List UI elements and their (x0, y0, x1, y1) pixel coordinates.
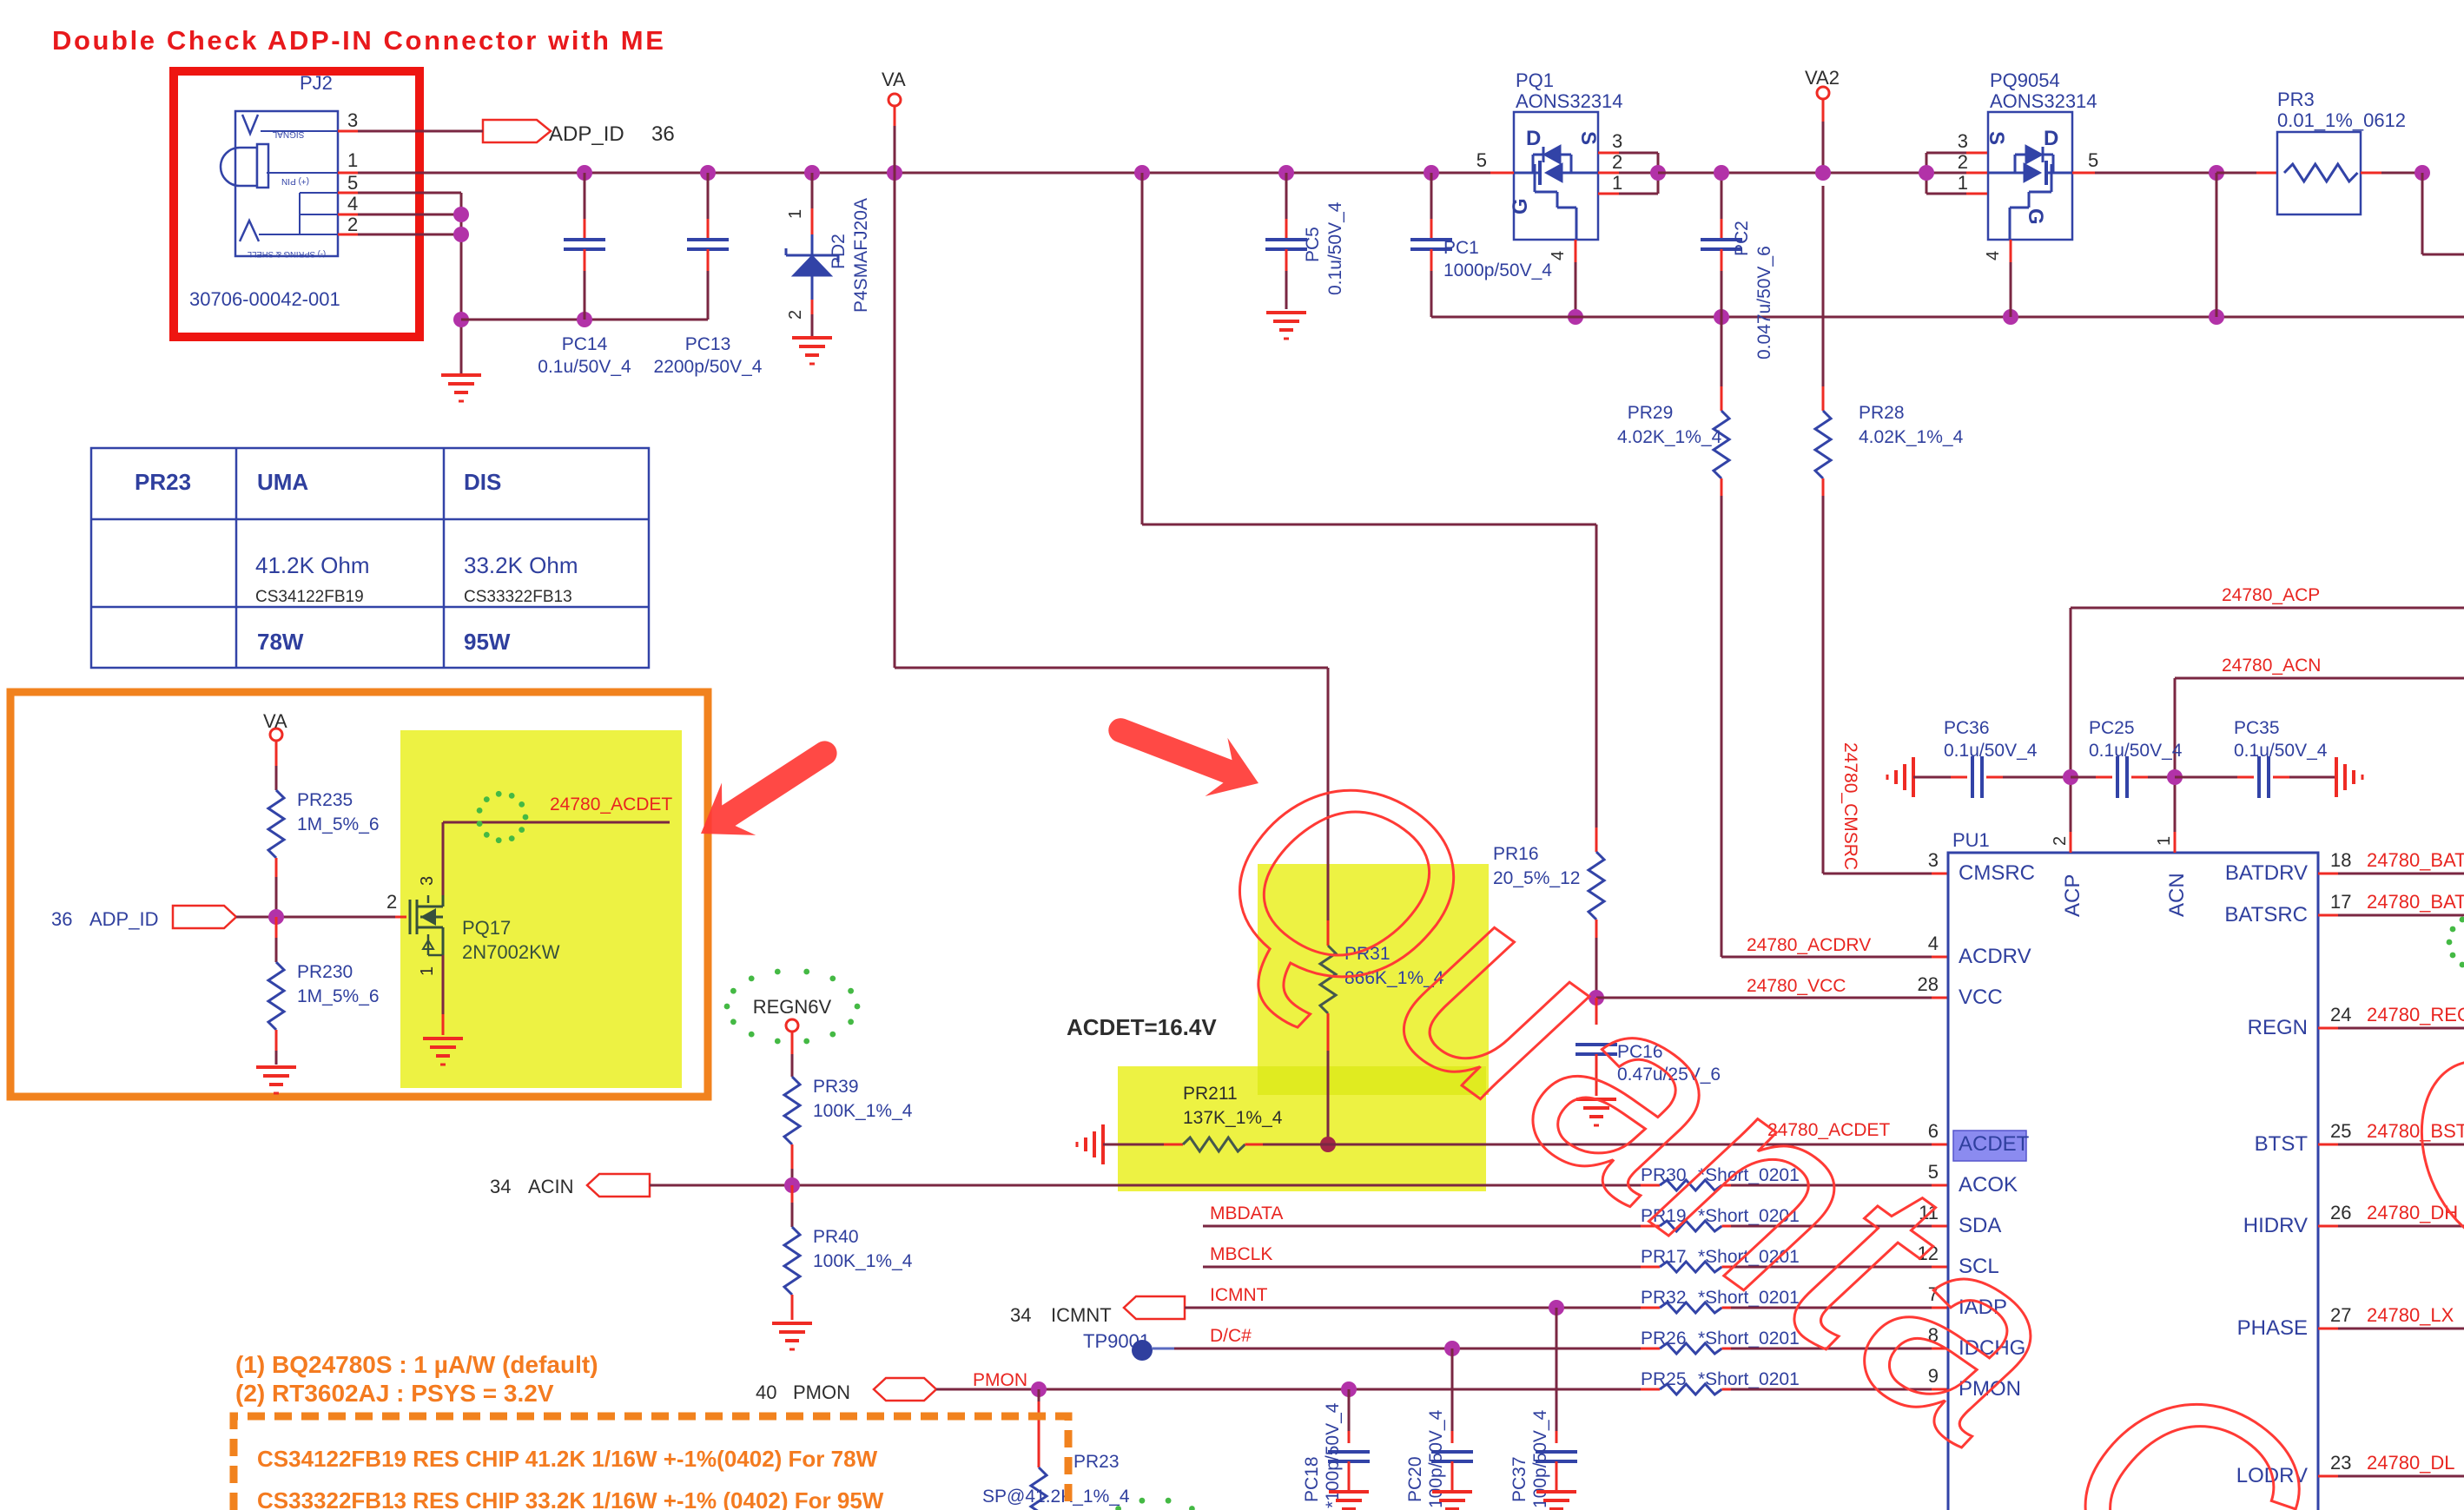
ground right of PC35 (2336, 757, 2362, 797)
svg-text:PD2: PD2 (829, 234, 849, 269)
pin number 1 of PQ1 (1612, 172, 1622, 194)
resistor PR235 (268, 741, 284, 917)
wire BATSRC out (2318, 914, 2464, 917)
pin ACP of PU1 (2051, 832, 2084, 917)
svg-text:CS34122FB19: CS34122FB19 (255, 588, 364, 606)
svg-text:PR23: PR23 (1073, 1452, 1120, 1472)
pin number 9 of PU1 PMON (1928, 1365, 1939, 1387)
wire branch-B (1142, 173, 1596, 828)
label PC20 value 100p/50V_4 (1426, 1409, 1446, 1508)
svg-text:0.1u/50V_4: 0.1u/50V_4 (1944, 741, 2038, 761)
resistor PR31 (1320, 920, 1336, 1144)
label PC18 value *100p/50V_4 (1323, 1402, 1343, 1508)
svg-text:ADP_ID: ADP_ID (89, 908, 158, 930)
ground left of PR211 (1077, 1124, 1103, 1164)
label net 24780_BATDRV (2367, 849, 2464, 871)
label PD2 refdes (829, 234, 849, 269)
wire PQ1 pins 3-2-1 tie (1598, 153, 1658, 194)
label net 24780_ACN (2222, 656, 2321, 676)
junction PQ1 source tie (1650, 165, 1666, 181)
label PC16 value 0.47u/25V_6 (1617, 1065, 1721, 1085)
svg-text:0.1u/50V_4: 0.1u/50V_4 (2089, 741, 2183, 761)
junction PC2 top (1714, 165, 1729, 181)
label PJ2 (300, 72, 333, 94)
svg-text:VCC: VCC (1959, 986, 2003, 1009)
svg-text:CS33322FB13: CS33322FB13 (464, 588, 572, 606)
svg-text:78W: 78W (257, 629, 304, 655)
pin stub PQ1 pin5 (1490, 172, 1514, 175)
junction branch-B top (1134, 165, 1150, 181)
junction PC2 bottom (1714, 309, 1729, 325)
svg-text:AONS32314: AONS32314 (1990, 90, 2097, 112)
green dotted circle on ACDET wire (477, 791, 529, 843)
label PC36 (1944, 718, 1990, 738)
svg-text:ICMNT: ICMNT (1051, 1304, 1112, 1326)
svg-text:PR28: PR28 (1859, 403, 1905, 423)
pin name IADP of PU1 (1959, 1296, 2007, 1319)
label net 24780_BATSRC (2367, 891, 2464, 913)
label PR230 value 1M_5%_6 (297, 986, 380, 1006)
pin number 4 of PQ9054 (1984, 251, 2003, 260)
svg-text:D: D (2044, 127, 2058, 150)
svg-text:2: 2 (1612, 151, 1622, 173)
label PR3 value 0.01_1%_0612 (2277, 109, 2406, 131)
svg-text:33.2K Ohm: 33.2K Ohm (464, 552, 578, 578)
label PR25 *Short_0201 (1641, 1369, 1800, 1389)
label PR40 (813, 1227, 859, 1247)
svg-text:4: 4 (1549, 251, 1568, 260)
yellow highlight region around PR31 (1258, 864, 1489, 1095)
svg-text:CMSRC: CMSRC (1959, 861, 2035, 885)
pin name ACDET of PU1 (1959, 1132, 2030, 1156)
svg-text:PR211: PR211 (1183, 1084, 1238, 1104)
pin number 26 of PU1 HIDRV (2330, 1202, 2351, 1223)
label PC35 (2234, 718, 2280, 738)
pin number 5 of PJ2 (347, 172, 358, 194)
svg-text:PR40: PR40 (813, 1227, 859, 1247)
wire ADP_ID node (236, 916, 406, 919)
junction PR39 PR40 (784, 1177, 800, 1193)
svg-text:4: 4 (1928, 933, 1939, 954)
svg-text:1: 1 (2155, 836, 2174, 846)
svg-text:24780_ACN: 24780_ACN (2222, 656, 2321, 676)
pin number 8 of PU1 IDCHG (1928, 1324, 1939, 1346)
svg-text:26: 26 (2330, 1202, 2351, 1223)
ground at PC37 (1536, 1492, 1576, 1510)
svg-text:PR39: PR39 (813, 1077, 859, 1097)
wire PMON line (936, 1388, 1658, 1391)
label PQ9054 part AONS32314 (1990, 90, 2097, 112)
svg-text:ICMNT: ICMNT (1210, 1285, 1268, 1305)
label PR39 value 100K_1%_4 (813, 1101, 913, 1121)
table header DIS (464, 469, 501, 495)
note BQ24780S (235, 1351, 598, 1378)
svg-text:PQ9054: PQ9054 (1990, 69, 2060, 91)
label PC25 value 0.1u/50V_4 (2089, 741, 2183, 761)
label PC2 (1732, 221, 1752, 256)
junction branch-A top (887, 165, 902, 181)
pin number 3 of PQ1 (1612, 130, 1622, 152)
svg-text:3: 3 (418, 876, 437, 886)
svg-text:(1) BQ24780S : 1 µA/W (default: (1) BQ24780S : 1 µA/W (default) (235, 1351, 598, 1378)
wire PQ17 drain to ACDET label (443, 822, 670, 895)
svg-text:S: S (1576, 131, 1600, 145)
resistor PR39 (784, 1032, 800, 1185)
svg-text:P4SMAFJ20A: P4SMAFJ20A (851, 198, 871, 313)
svg-text:2: 2 (386, 891, 397, 913)
ground at PR40 (772, 1323, 812, 1349)
label PR29 (1628, 403, 1674, 423)
wire REGN out (2318, 1027, 2464, 1030)
svg-text:36: 36 (651, 122, 675, 146)
svg-text:25: 25 (2330, 1120, 2351, 1142)
svg-text:24780_REGN6V: 24780_REGN6V (2367, 1004, 2464, 1025)
wire sense node down (2216, 173, 2218, 317)
svg-text:PR26: PR26 (1641, 1329, 1687, 1348)
green dots at REGN edge (2447, 913, 2464, 972)
svg-text:REGN: REGN (2248, 1016, 2308, 1039)
pin name BATSRC of PU1 (2224, 903, 2308, 926)
label PR30 *Short_0201 (1641, 1165, 1800, 1185)
table cell 41.2K Ohm (255, 552, 370, 578)
svg-text:3: 3 (1958, 130, 1968, 152)
svg-text:ACP: ACP (2061, 874, 2084, 917)
svg-text:PC20: PC20 (1405, 1456, 1425, 1502)
ground at PQ17 (423, 1039, 463, 1065)
svg-text:100K_1%_4: 100K_1%_4 (813, 1251, 913, 1271)
table cell CS33322FB13 (464, 588, 572, 606)
ground at PD2 (792, 338, 832, 364)
svg-text:VA: VA (263, 710, 287, 732)
junction PC5 top (1278, 165, 1294, 181)
label PU1 refdes (1952, 829, 1990, 851)
label PC18 (1302, 1456, 1322, 1502)
label PC5 value 0.1u/50V_4 (1325, 201, 1345, 295)
capacitor PC25 (2071, 756, 2175, 798)
svg-text:ACDRV: ACDRV (1959, 945, 2031, 968)
pin stubs of PJ2 (338, 131, 358, 234)
label PQ9054 refdes (1990, 69, 2060, 91)
resistor PR32 (1641, 1302, 1741, 1313)
junction PC37 top (1549, 1300, 1564, 1315)
svg-text:(-) SPRING & SHELL: (-) SPRING & SHELL (248, 249, 326, 259)
port ADP_ID output arrow (483, 120, 551, 142)
label ADP_ID in orange box (89, 908, 158, 930)
svg-text:PR230: PR230 (297, 962, 353, 982)
pin number 23 of PU1 LODRV (2330, 1452, 2351, 1474)
label PR32 *Short_0201 (1641, 1288, 1800, 1308)
label net MBCLK (1210, 1244, 1272, 1264)
svg-text:4.02K_1%_4: 4.02K_1%_4 (1859, 427, 1964, 447)
pin number 1 of PQ9054 (1958, 172, 1968, 194)
label TP9001 (1083, 1330, 1150, 1352)
wire IADP to PU1 (1731, 1307, 1948, 1309)
pin number 5 of PQ9054 (2088, 149, 2098, 171)
label net 24780_REGN6V (2367, 1004, 2464, 1025)
svg-text:1M_5%_6: 1M_5%_6 (297, 986, 380, 1006)
wire IADP line (1185, 1307, 1658, 1309)
label PR19 *Short_0201 (1641, 1206, 1800, 1226)
svg-text:PMON: PMON (793, 1381, 850, 1403)
capacitor PC18 (1328, 1389, 1370, 1490)
wire PQ9054 drain out (2072, 172, 2216, 175)
wire IDCHG to PU1 (1731, 1348, 1948, 1350)
resistor PR211 (1103, 1137, 1948, 1151)
testpoint TP9001 (1132, 1340, 1174, 1361)
svg-text:BTST: BTST (2255, 1132, 2309, 1156)
wire branch-A (895, 173, 1328, 920)
capacitor PC2 (1701, 173, 1742, 317)
label net D/C# (1210, 1326, 1252, 1346)
label PR16 value 20_5%_12 (1493, 868, 1580, 888)
label PC2 value 0.047u/50V_6 (1754, 246, 1774, 359)
label PR17 *Short_0201 (1641, 1247, 1800, 1267)
resistor PR230 (268, 917, 284, 1065)
svg-text:2N7002KW: 2N7002KW (462, 941, 560, 963)
pin number 27 of PU1 PHASE (2330, 1304, 2351, 1326)
label PC37 (1509, 1456, 1529, 1502)
orange emphasis box (10, 692, 708, 1097)
junction ACP cap row (2063, 769, 2078, 785)
label net 24780_DL (2367, 1452, 2455, 1474)
label 36 in orange box (51, 908, 72, 930)
svg-text:24780_BATDRV: 24780_BATDRV (2367, 849, 2464, 871)
wire PQ1 source to PQ9054 (1658, 172, 1926, 175)
junction PJ2 ground bus (453, 312, 469, 327)
pin number 6 of PU1 ACDET (1928, 1120, 1939, 1142)
label 30706-00042-001 (189, 288, 340, 310)
svg-text:CS33322FB13 RES CHIP 33.2K 1/: CS33322FB13 RES CHIP 33.2K 1/16W +-1% (0… (257, 1487, 884, 1510)
svg-text:PC37: PC37 (1509, 1456, 1529, 1502)
label net 24780_DH (2367, 1202, 2458, 1223)
table cell 95W (464, 629, 511, 655)
junction PJ2 pin2 (453, 227, 469, 242)
green dotted ellipse REGN6V (724, 969, 861, 1045)
pin number 18 of PU1 BATDRV (2330, 849, 2351, 871)
junction PC1 top (1424, 165, 1439, 181)
wire net 24780_ACP (2071, 608, 2464, 853)
svg-text:24780_BATSRC: 24780_BATSRC (2367, 891, 2464, 913)
table cell 33.2K Ohm (464, 552, 578, 578)
terminal VA2 (1817, 87, 1829, 173)
resistor PR28 (1815, 186, 1831, 874)
wire CMSRC corner (1823, 873, 1948, 875)
resistor PR29 (1714, 317, 1729, 957)
resistor PR26 (1641, 1343, 1741, 1354)
svg-text:PC2: PC2 (1732, 221, 1752, 256)
capacitor PC1 (1410, 173, 1452, 317)
label net 24780_ACP (2222, 585, 2320, 605)
svg-text:40: 40 (756, 1381, 776, 1403)
svg-text:3: 3 (347, 109, 358, 131)
port ACIN arrow (587, 1174, 650, 1197)
pin name BATDRV of PU1 (2225, 861, 2308, 885)
svg-text:PQ1: PQ1 (1516, 69, 1554, 91)
svg-text:34: 34 (1010, 1304, 1031, 1326)
svg-text:Double Check ADP-IN Connector: Double Check ADP-IN Connector with ME (52, 25, 665, 56)
label PR26 *Short_0201 (1641, 1329, 1800, 1348)
svg-text:4: 4 (1984, 251, 2003, 260)
orange dashed box (234, 1416, 1068, 1510)
svg-text:5: 5 (347, 172, 358, 194)
resistor PR17 (1641, 1262, 1741, 1272)
svg-text:(2) RT3602AJ : PSYS = 3.2V: (2) RT3602AJ : PSYS = 3.2V (235, 1380, 554, 1407)
svg-text:PQ17: PQ17 (462, 917, 511, 939)
wire SDA to PU1 (1731, 1225, 1948, 1228)
svg-text:VA2: VA2 (1805, 67, 1840, 89)
pin number 1 of PJ2 (347, 149, 358, 171)
label PR211 value 137K_1%_4 (1183, 1108, 1283, 1128)
ground at PJ2 shell (441, 375, 481, 401)
svg-text:2: 2 (347, 214, 358, 235)
svg-text:PC13: PC13 (685, 334, 731, 354)
label PR40 value 100K_1%_4 (813, 1251, 913, 1271)
svg-text:36: 36 (51, 908, 72, 930)
wire HIDRV out (2318, 1225, 2464, 1228)
svg-text:1: 1 (786, 209, 805, 219)
svg-text:G: G (1509, 198, 1532, 214)
label net 24780_ACDET in orange box (550, 795, 672, 814)
label net 24780_ACDRV (1747, 935, 1871, 955)
pin number 5 of PU1 ACOK (1928, 1161, 1939, 1183)
red callout arrow into PR31 area (1098, 696, 1270, 812)
svg-text:MBCLK: MBCLK (1210, 1244, 1272, 1264)
svg-text:G: G (2024, 208, 2047, 225)
junction VA2 bus (1815, 165, 1831, 181)
svg-text:PHASE: PHASE (2237, 1316, 2308, 1340)
svg-text:27: 27 (2330, 1304, 2351, 1326)
svg-text:18: 18 (2330, 849, 2351, 871)
junction PC13 top (700, 165, 716, 181)
junction PJ2 pin4 (453, 207, 469, 222)
junction PC20 top (1444, 1341, 1460, 1356)
junction ADP_ID node (268, 909, 284, 925)
svg-text:24780_ACDRV: 24780_ACDRV (1747, 935, 1871, 955)
svg-text:4.02K_1%_4: 4.02K_1%_4 (1617, 427, 1722, 447)
svg-text:ACDET=16.4V: ACDET=16.4V (1067, 1014, 1217, 1040)
svg-text:0.1u/50V_4: 0.1u/50V_4 (538, 357, 631, 377)
svg-text:PC36: PC36 (1944, 718, 1990, 738)
ground at PR230 (256, 1067, 296, 1093)
capacitor PC14 (564, 173, 605, 320)
svg-text:0.047u/50V_6: 0.047u/50V_6 (1754, 246, 1774, 359)
svg-text:0.1u/50V_4: 0.1u/50V_4 (2234, 741, 2328, 761)
junction gate bus right (2209, 309, 2224, 325)
svg-text:1: 1 (1612, 172, 1622, 194)
watermark fragment arc right edge (2395, 1039, 2464, 1270)
capacitor PC16 (1576, 998, 1617, 1096)
red emphasis box around PJ2 (174, 71, 419, 337)
wire ACOK line (650, 1184, 1658, 1187)
title note Double Check ADP-IN Connector with ME (52, 25, 665, 56)
resistor PR16 (1589, 828, 1604, 998)
svg-text:TP9001: TP9001 (1083, 1330, 1150, 1352)
label pin2 of PQ17 (386, 891, 397, 913)
pin name BTST of PU1 (2255, 1132, 2309, 1156)
svg-text:S: S (1985, 131, 2008, 145)
svg-text:24780_LX: 24780_LX (2367, 1304, 2454, 1326)
label net ICMNT (1210, 1285, 1268, 1305)
capacitor PC13 (687, 173, 729, 320)
svg-text:PR29: PR29 (1628, 403, 1674, 423)
label PC13 value 2200p/50V_4 (654, 357, 763, 377)
wire BATDRV out (2318, 873, 2464, 875)
pin name LODRV of PU1 (2236, 1464, 2308, 1487)
resistor PR30 (1641, 1180, 1741, 1190)
svg-text:17: 17 (2330, 891, 2351, 913)
svg-text:3: 3 (1928, 849, 1939, 871)
pin name VCC of PU1 (1959, 986, 2003, 1009)
pin name PHASE of PU1 (2237, 1316, 2308, 1340)
transistor PQ1 (1509, 112, 1600, 240)
label pin1 of PD2 (786, 209, 805, 219)
svg-text:2: 2 (1958, 151, 1968, 173)
svg-text:3: 3 (1612, 130, 1622, 152)
table PR23 UMA DIS (91, 448, 649, 668)
wire PQ9054 pin4 gate (2010, 240, 2012, 317)
svg-text:PC35: PC35 (2234, 718, 2280, 738)
junction PR3 right (2414, 165, 2430, 181)
wire ACDRV (1721, 956, 1948, 959)
pin number 4 of PU1 ACDRV (1928, 933, 1939, 954)
wire ACOK to PU1 (1731, 1184, 1948, 1187)
pin number 25 of PU1 BTST (2330, 1120, 2351, 1142)
svg-text:PC14: PC14 (562, 334, 608, 354)
label PR23 value SP@41.2K_1%_4 (982, 1487, 1130, 1507)
svg-text:2200p/50V_4: 2200p/50V_4 (654, 357, 763, 377)
note CS34122FB19 row (257, 1446, 878, 1472)
junction PQ1 gate (1568, 309, 1583, 325)
pin number 12 of PU1 SCL (1918, 1243, 1939, 1264)
svg-text:ADP_ID: ADP_ID (549, 122, 624, 146)
svg-text:0.01_1%_0612: 0.01_1%_0612 (2277, 109, 2406, 131)
svg-text:PR23: PR23 (135, 469, 191, 495)
pin number 4 of PJ2 (347, 193, 358, 214)
svg-text:MBDATA: MBDATA (1210, 1203, 1283, 1223)
label PC13 (685, 334, 731, 354)
wire LODRV out (2318, 1475, 2464, 1478)
label ACDET=16.4V note (1067, 1014, 1217, 1040)
pin name ACDRV of PU1 (1959, 945, 2031, 968)
label PR28 value 4.02K_1%_4 (1859, 427, 1964, 447)
label 40 PMON (756, 1381, 850, 1403)
label PC1 value 1000p/50V_4 (1443, 260, 1552, 280)
label PC14 value 0.1u/50V_4 (538, 357, 631, 377)
note CS33322FB13 row (257, 1487, 884, 1510)
ground left of PC36 (1887, 757, 1913, 797)
label PQ1 part AONS32314 (1516, 90, 1623, 112)
label ADP_ID (549, 122, 624, 146)
svg-text:5: 5 (1476, 149, 1487, 171)
label pin3 of PQ17 (418, 876, 437, 886)
svg-text:PC5: PC5 (1303, 227, 1323, 262)
label PR235 value 1M_5%_6 (297, 814, 380, 834)
pin number 2 of PQ1 (1612, 151, 1622, 173)
label PR230 (297, 962, 353, 982)
label VA2 (1805, 67, 1840, 89)
svg-text:24: 24 (2330, 1004, 2351, 1025)
svg-text:BATSRC: BATSRC (2224, 903, 2308, 926)
label PQ1 refdes (1516, 69, 1554, 91)
junction PC14 top (577, 165, 592, 181)
svg-text:5: 5 (2088, 149, 2098, 171)
wire VA bus (358, 172, 1490, 175)
label net 24780_ACDET (1767, 1120, 1890, 1140)
highlight ACDET pin name (1953, 1131, 2026, 1161)
svg-text:2: 2 (2051, 836, 2070, 846)
label PC35 value 0.1u/50V_4 (2234, 741, 2328, 761)
yellow highlight overlap strip (1258, 1066, 1486, 1095)
